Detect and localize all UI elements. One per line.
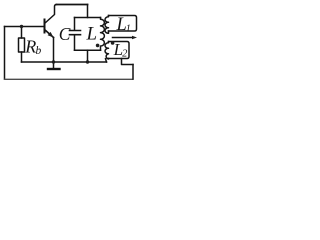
wire tank bottom stub xyxy=(87,50,89,62)
wire emitter vertical xyxy=(53,38,55,63)
capacitor C top lead xyxy=(74,18,76,31)
inductor L coil xyxy=(101,18,105,51)
junction dot emitter rail xyxy=(52,60,55,63)
capacitor C plates xyxy=(70,31,81,35)
transistor Q1 emitter arrowhead xyxy=(48,32,54,38)
output arrow shaft xyxy=(113,37,133,39)
transistor Q1 collector xyxy=(45,5,57,24)
polarity dot L xyxy=(96,44,100,48)
wire left border xyxy=(4,27,6,80)
wire L2 coil to rail xyxy=(106,59,107,62)
winding L1 box xyxy=(109,16,137,32)
winding L2 box xyxy=(109,42,130,59)
wire Rb bottom xyxy=(21,52,23,62)
svg-text:Rb: Rb xyxy=(24,36,41,57)
transistor Q1 base bar xyxy=(44,20,46,33)
polarity dot L2 xyxy=(111,41,115,45)
wire tank bottom xyxy=(75,49,101,51)
inductor L2 coil xyxy=(105,42,108,60)
wire base horizontal xyxy=(5,26,45,28)
junction dot tank rail xyxy=(86,60,89,63)
svg-text:C: C xyxy=(59,24,71,44)
wire bottom border xyxy=(5,78,134,80)
wire tank top xyxy=(75,17,101,19)
ground bar xyxy=(48,68,60,70)
transistor Q1 emitter xyxy=(45,30,54,38)
junction dot base xyxy=(20,25,23,28)
wire tank top stub xyxy=(87,5,89,18)
wire right border xyxy=(132,65,134,80)
output arrowhead xyxy=(132,36,137,40)
svg-text:L1: L1 xyxy=(116,15,131,35)
capacitor C bottom lead xyxy=(74,35,76,50)
wire Rb top xyxy=(21,27,23,39)
resistor Rb xyxy=(19,38,25,52)
wire L2 step xyxy=(122,59,134,65)
wire collector top xyxy=(57,4,88,6)
svg-text:L: L xyxy=(86,24,98,45)
inductor L1 coil xyxy=(105,16,108,34)
svg-text:L2: L2 xyxy=(113,40,128,60)
ground stub xyxy=(53,62,55,69)
circuit schematic: transformer-feedback LC oscillator xyxy=(0,0,138,90)
wire emitter-ground rail xyxy=(22,61,107,63)
